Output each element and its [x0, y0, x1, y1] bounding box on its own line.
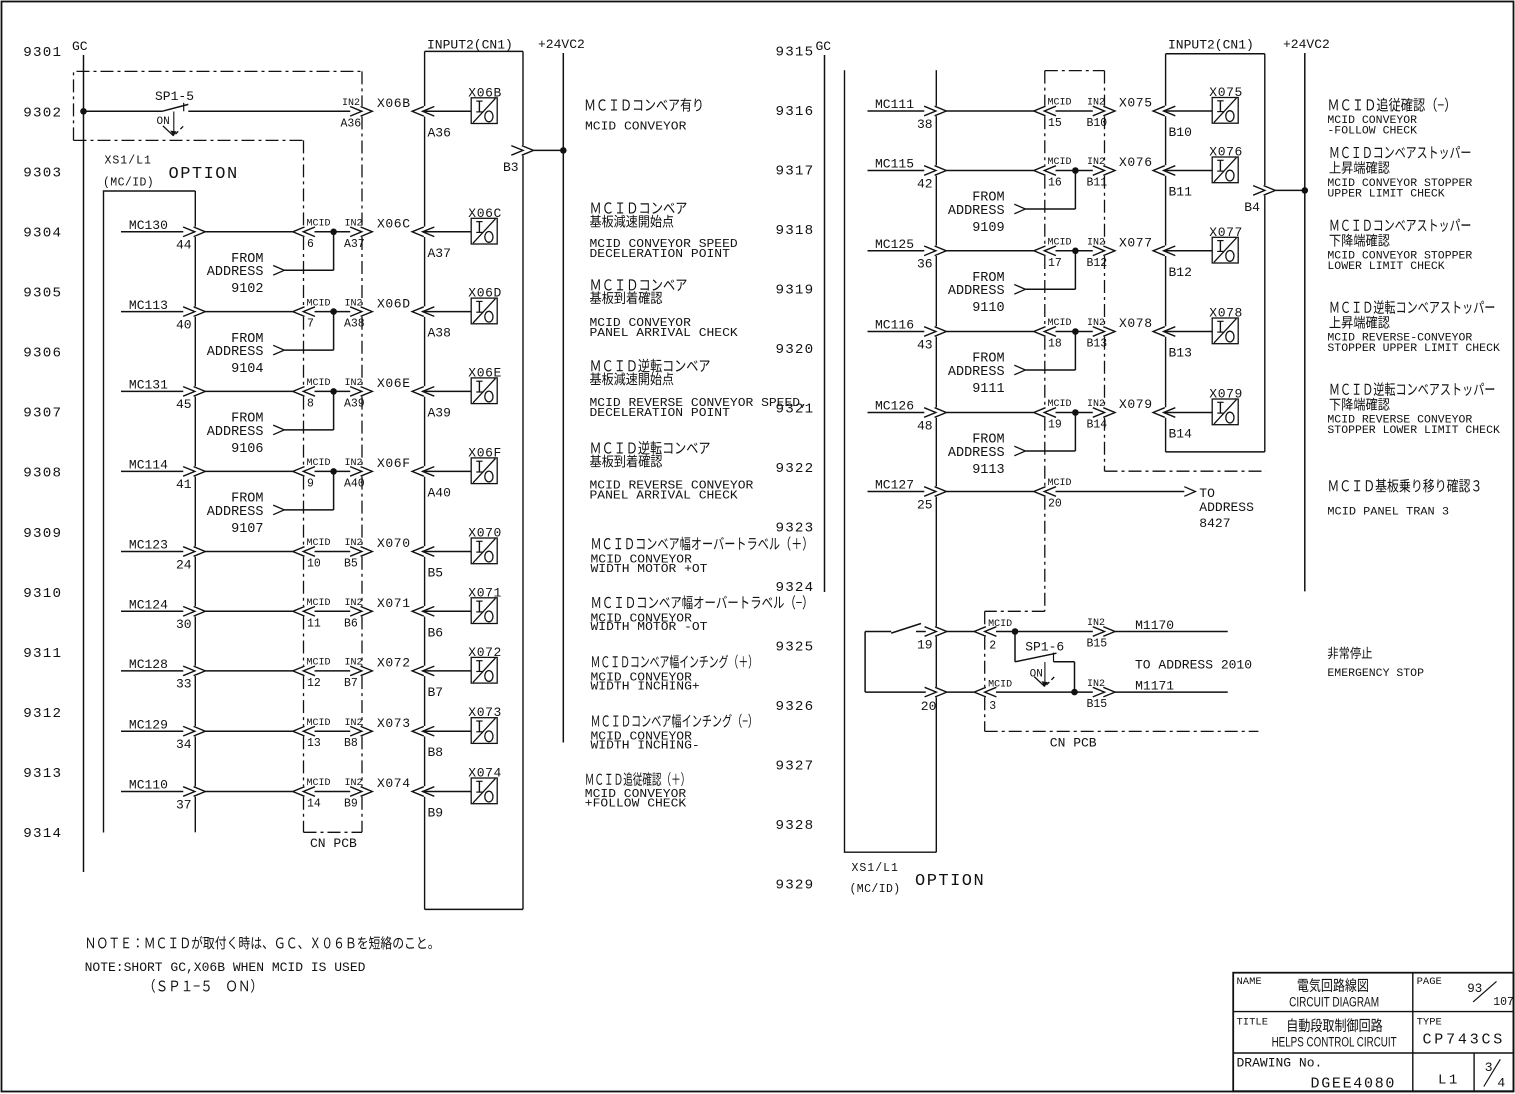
wire MCID to IN2 (MC125)	[1056, 250, 1093, 252]
svg-text:9313: 9313	[23, 766, 62, 782]
svg-text:DGEE4080: DGEE4080	[1311, 1076, 1397, 1093]
junction dot 9113	[1072, 409, 1079, 416]
connector pin IN2 B7 chevron	[350, 666, 372, 676]
svg-text:MCID: MCID	[307, 658, 331, 669]
svg-text:CIRCUIT DIAGRAM: CIRCUIT DIAGRAM	[1289, 995, 1379, 1010]
svg-text:DECELERATION POINT: DECELERATION POINT	[590, 247, 730, 261]
svg-text:MCID: MCID	[1048, 478, 1072, 489]
svg-text:X06C: X06C	[377, 217, 411, 232]
svg-text:9319: 9319	[776, 283, 815, 299]
svg-text:+24VC2: +24VC2	[538, 37, 585, 52]
svg-text:DRAWING No.: DRAWING No.	[1237, 1056, 1323, 1071]
svg-text:MC123: MC123	[129, 538, 168, 553]
svg-text:B7: B7	[428, 685, 444, 700]
junction dot 9102	[330, 229, 337, 236]
connector pin MCID 12 chevron	[293, 666, 315, 676]
svg-text:9326: 9326	[776, 699, 815, 715]
svg-text:MC110: MC110	[129, 778, 168, 793]
svg-text:CN PCB: CN PCB	[1050, 736, 1097, 751]
svg-text:44: 44	[176, 238, 192, 253]
connector pin IN2 B11 chevron	[1093, 166, 1115, 176]
svg-text:LOWER LIMIT CHECK: LOWER LIMIT CHECK	[1327, 261, 1445, 273]
svg-text:93: 93	[1467, 982, 1482, 996]
CN PCB boundary dash-dot vertical MCID side (left)	[303, 140, 305, 226]
connector pin IN2 B8 chevron	[350, 726, 372, 736]
junction dot 9106	[330, 388, 337, 395]
svg-text:40: 40	[176, 317, 192, 332]
svg-text:9104: 9104	[231, 362, 263, 377]
svg-text:9324: 9324	[776, 580, 815, 596]
svg-text:X077: X077	[1119, 236, 1153, 251]
svg-text:9102: 9102	[231, 282, 263, 297]
connector pin IN2 B12 chevron	[1093, 246, 1115, 256]
svg-text:A36: A36	[341, 118, 362, 131]
svg-text:IN2: IN2	[345, 378, 363, 389]
junction dot 9107	[330, 468, 337, 475]
svg-text:ADDRESS: ADDRESS	[948, 365, 1005, 380]
svg-text:MCID: MCID	[307, 718, 331, 729]
wire MC127 to MCID connector	[946, 491, 1034, 493]
svg-text:B11: B11	[1169, 185, 1193, 200]
svg-text:WIDTH MOTOR -OT: WIDTH MOTOR -OT	[591, 620, 708, 634]
svg-text:ADDRESS: ADDRESS	[207, 505, 264, 520]
svg-text:-FOLLOW CHECK: -FOLLOW CHECK	[1327, 126, 1417, 138]
svg-text:A38: A38	[428, 326, 451, 341]
connector pin chevron at INPUT2 edge (X075)	[1153, 106, 1175, 116]
svg-text:A40: A40	[428, 485, 451, 500]
CN PCB boundary dash-dot top bar (right)	[1045, 70, 1105, 72]
svg-text:+24VC2: +24VC2	[1283, 37, 1330, 52]
svg-text:B5: B5	[428, 566, 444, 581]
connector pin MCID 2 chevron	[974, 627, 996, 637]
svg-text:X071: X071	[377, 596, 411, 611]
svg-text:9323: 9323	[776, 521, 815, 537]
svg-text:7: 7	[307, 318, 314, 331]
svg-text:9317: 9317	[776, 164, 815, 180]
svg-text:9110: 9110	[972, 301, 1004, 316]
wire MCID 3 to IN2 B15	[996, 691, 1093, 693]
svg-text:MC129: MC129	[129, 717, 168, 732]
svg-text:9: 9	[307, 477, 314, 490]
svg-text:IN2: IN2	[1087, 157, 1105, 168]
svg-text:25: 25	[917, 497, 933, 512]
svg-text:IN2: IN2	[345, 219, 363, 230]
wire MCID to IN2 (MC126)	[1056, 412, 1093, 414]
svg-text:SP1-5: SP1-5	[155, 89, 194, 104]
svg-text:UPPER LIMIT CHECK: UPPER LIMIT CHECK	[1327, 189, 1445, 201]
svg-text:IN2: IN2	[1087, 399, 1105, 410]
svg-text:OPTION: OPTION	[169, 165, 239, 184]
CN PCB boundary bottom bar (right)	[985, 730, 1259, 732]
+24VC2 rail vertical wire (left)	[562, 53, 564, 743]
description X077 (stopper lower limit)	[1331, 220, 1339, 231]
svg-text:MCID: MCID	[1048, 318, 1072, 329]
wire X06C input to I/O	[423, 231, 472, 233]
svg-text:TITLE: TITLE	[1237, 1017, 1269, 1029]
svg-text:9316: 9316	[776, 104, 815, 120]
description MCID panel tran 3	[1329, 480, 1337, 491]
svg-text:9107: 9107	[231, 522, 263, 537]
wire X073 input to I/O	[423, 730, 472, 732]
connector pin 36 chevron at XS1/L1 edge	[924, 246, 946, 256]
connector pin 19 chevron at XS1/L1 edge (M1170)	[925, 627, 947, 637]
svg-text:X073: X073	[377, 716, 411, 731]
svg-text:MC127: MC127	[875, 478, 914, 493]
junction dot B4 +24VC2	[1302, 187, 1309, 194]
svg-text:M1170: M1170	[1135, 618, 1174, 633]
connector pin 30 chevron at XS1/L1 edge	[183, 607, 205, 617]
connector pin chevron at INPUT2 edge (X077)	[1153, 246, 1175, 256]
svg-text:SP1-6: SP1-6	[1025, 640, 1064, 655]
description X06F (reverse panel arrival)	[591, 442, 599, 453]
svg-text:MCID: MCID	[307, 219, 331, 230]
svg-text:A39: A39	[428, 405, 451, 420]
connector pin MCID 18 chevron	[1034, 327, 1056, 337]
note text (Japanese)	[87, 938, 94, 949]
svg-text:14: 14	[307, 798, 321, 811]
svg-text:A39: A39	[344, 397, 365, 410]
connector pin 40 chevron at XS1/L1 edge	[183, 307, 205, 317]
connector pin IN2 B5 chevron	[350, 547, 372, 557]
svg-text:9308: 9308	[23, 466, 62, 482]
description X072 (width inching +)	[592, 656, 599, 667]
connector pin MCID 3 chevron	[974, 687, 996, 697]
svg-text:9106: 9106	[231, 442, 263, 457]
wire X070 input to I/O	[423, 551, 472, 553]
connector pin IN2 B9 chevron	[350, 787, 372, 797]
svg-text:OPTION: OPTION	[915, 872, 985, 891]
description X079 (reverse stopper lower limit)	[1331, 384, 1339, 395]
svg-text:PAGE: PAGE	[1417, 976, 1442, 988]
wire MCID to IN2 (MC116)	[1056, 331, 1093, 333]
svg-text:MCID: MCID	[1048, 399, 1072, 410]
svg-text:8427: 8427	[1199, 516, 1230, 531]
svg-text:TO: TO	[1199, 486, 1215, 501]
connector pin B4 chevron	[1253, 186, 1275, 196]
+24VC2 rail vertical wire (right)	[1304, 53, 1306, 591]
wire MC123 to MCID connector	[205, 551, 292, 553]
wire MC131 to MCID connector	[205, 390, 292, 392]
connector pin 42 chevron at XS1/L1 edge	[924, 166, 946, 176]
svg-text:MCID: MCID	[1048, 157, 1072, 168]
svg-text:TO ADDRESS 2010: TO ADDRESS 2010	[1135, 658, 1252, 673]
wire MC128 to MCID connector	[205, 670, 292, 672]
svg-text:11: 11	[307, 617, 321, 630]
svg-text:B8: B8	[344, 737, 358, 750]
svg-text:A37: A37	[344, 238, 365, 251]
wire MCID to IN2 (MC128)	[315, 670, 351, 672]
svg-text:MC128: MC128	[129, 657, 168, 672]
svg-text:19: 19	[917, 637, 933, 652]
connector pin 43 chevron at XS1/L1 edge	[924, 327, 946, 337]
svg-text:HELPS CONTROL CIRCUIT: HELPS CONTROL CIRCUIT	[1272, 1035, 1397, 1050]
svg-text:MC113: MC113	[129, 298, 168, 313]
wire X06F input to I/O	[423, 470, 472, 472]
wire row 9302 to IN2 connector	[188, 110, 350, 112]
wire X077 input to I/O	[1164, 250, 1213, 252]
connector pin B3 chevron	[511, 146, 533, 156]
svg-text:IN2: IN2	[345, 538, 363, 549]
wire MC110 to MCID connector	[205, 791, 292, 793]
svg-text:CP743CS: CP743CS	[1423, 1032, 1506, 1049]
CN PCB boundary bottom bar (left)	[304, 831, 363, 833]
svg-text:20: 20	[1048, 498, 1062, 511]
connector pin 41 chevron at XS1/L1 edge	[183, 467, 205, 477]
connector pin 44 chevron at XS1/L1 edge	[183, 227, 205, 237]
svg-text:18: 18	[1048, 338, 1062, 351]
svg-text:GC: GC	[72, 39, 88, 54]
description X06E (reverse deceleration point)	[591, 360, 599, 371]
svg-text:MCID: MCID	[307, 778, 331, 789]
wire X072 input to I/O	[423, 670, 472, 672]
svg-text:B12: B12	[1087, 257, 1108, 270]
svg-text:9109: 9109	[972, 221, 1004, 236]
svg-text:PANEL ARRIVAL CHECK: PANEL ARRIVAL CHECK	[590, 326, 739, 340]
svg-text:WIDTH MOTOR +OT: WIDTH MOTOR +OT	[591, 562, 708, 576]
svg-text:9322: 9322	[776, 461, 815, 477]
svg-text:ADDRESS: ADDRESS	[207, 345, 264, 360]
connector pin chevron at INPUT2 edge (X078)	[1153, 327, 1175, 337]
svg-text:B7: B7	[344, 677, 358, 690]
description X073 (width inching -)	[592, 715, 599, 726]
svg-text:WIDTH INCHING+: WIDTH INCHING+	[591, 679, 700, 693]
svg-text:9306: 9306	[23, 346, 62, 362]
svg-text:9327: 9327	[776, 759, 815, 775]
svg-text:X072: X072	[377, 656, 411, 671]
svg-text:X070: X070	[377, 536, 411, 551]
svg-text:IN2: IN2	[345, 298, 363, 309]
svg-text:IN2: IN2	[345, 598, 363, 609]
wire X078 input to I/O	[1164, 331, 1213, 333]
svg-text:9305: 9305	[23, 286, 62, 302]
description X06C (deceleration point)	[591, 202, 599, 213]
wire MC115 to MCID connector	[946, 170, 1034, 172]
connector pin 24 chevron at XS1/L1 edge	[183, 547, 205, 557]
wire B4 to +24VC2 rail	[1275, 189, 1305, 191]
svg-text:IN2: IN2	[1087, 238, 1105, 249]
description X078 (reverse stopper upper limit)	[1331, 302, 1339, 313]
connector pin chevron at INPUT2 edge (X06C)	[412, 227, 434, 237]
wire X06B input to I/O	[423, 110, 472, 112]
wire MC113 to MCID connector	[205, 311, 292, 313]
svg-text:M1171: M1171	[1135, 679, 1174, 694]
wire MC129 to MCID connector	[205, 730, 292, 732]
svg-text:42: 42	[917, 176, 933, 191]
wire X06D input to I/O	[423, 311, 472, 313]
svg-text:MCID: MCID	[1048, 98, 1072, 109]
svg-text:XS1/L1: XS1/L1	[105, 155, 152, 168]
connector pin chevron at INPUT2 edge (X072)	[412, 666, 434, 676]
svg-text:MCID: MCID	[307, 378, 331, 389]
connector pin IN2 A39 chevron	[350, 387, 372, 397]
svg-text:TYPE: TYPE	[1417, 1017, 1442, 1029]
svg-text:B3: B3	[503, 160, 519, 175]
svg-text:MC126: MC126	[875, 399, 914, 414]
connector pin 34 chevron at XS1/L1 edge	[183, 726, 205, 736]
svg-text:IN2: IN2	[1087, 618, 1105, 629]
GC rail vertical wire (right)	[824, 55, 826, 592]
svg-text:MCID: MCID	[307, 298, 331, 309]
junction dot 9110	[1072, 248, 1079, 255]
svg-text:A36: A36	[428, 125, 451, 140]
svg-text:MC116: MC116	[875, 318, 914, 333]
connector pin MCID 10 chevron	[293, 547, 315, 557]
svg-text:IN2: IN2	[342, 98, 360, 109]
connector pin MCID 7 chevron	[293, 307, 315, 317]
description X06D (panel arrival check)	[591, 279, 599, 290]
svg-text:B4: B4	[1244, 200, 1260, 215]
connector pin chevron at INPUT2 edge (X074)	[412, 787, 434, 797]
connector pin chevron at INPUT2 edge (X06F)	[412, 467, 434, 477]
svg-text:B14: B14	[1087, 419, 1108, 432]
svg-text:41: 41	[176, 477, 192, 492]
svg-text:B6: B6	[344, 617, 358, 630]
connector pin 33 chevron at XS1/L1 edge	[183, 666, 205, 676]
connector pin chevron at INPUT2 edge (X073)	[412, 726, 434, 736]
svg-text:10: 10	[307, 558, 321, 571]
wire M1170 output	[1115, 631, 1228, 633]
connector pin IN2 A38 chevron	[350, 307, 372, 317]
wire X076 input to I/O	[1164, 170, 1213, 172]
svg-text:48: 48	[917, 418, 933, 433]
wire MC124 to MCID connector	[205, 610, 292, 612]
wire M1170 to MCID connector	[947, 631, 974, 633]
junction dot 9109	[1072, 167, 1079, 174]
svg-text:MCID: MCID	[988, 619, 1012, 630]
svg-text:9325: 9325	[776, 640, 815, 656]
svg-text:IN2: IN2	[1087, 98, 1105, 109]
svg-text:38: 38	[917, 117, 933, 132]
svg-text:PANEL ARRIVAL CHECK: PANEL ARRIVAL CHECK	[590, 489, 739, 503]
connector INPUT2(CN1) boundary box (right)	[1166, 53, 1265, 55]
description X071 (width motor -OT)	[592, 597, 600, 608]
svg-text:37: 37	[176, 797, 192, 812]
svg-text:A40: A40	[344, 477, 365, 490]
connector pin 37 chevron at XS1/L1 edge	[183, 787, 205, 797]
svg-text:IN2: IN2	[345, 658, 363, 669]
svg-text:EMERGENCY STOP: EMERGENCY STOP	[1327, 668, 1424, 680]
wire row 9302 left segment	[84, 110, 163, 112]
svg-text:6: 6	[307, 238, 314, 251]
CN PCB boundary dash-dot vertical IN2 side (left)	[361, 71, 363, 106]
svg-text:MCID: MCID	[307, 458, 331, 469]
svg-text:ADDRESS: ADDRESS	[948, 204, 1005, 219]
svg-text:B9: B9	[428, 806, 444, 821]
wire MCID 20 to address arrow	[1056, 491, 1185, 493]
svg-text:107: 107	[1493, 996, 1514, 1009]
svg-text:9320: 9320	[776, 342, 815, 358]
svg-text:A38: A38	[344, 318, 365, 331]
svg-text:B10: B10	[1169, 125, 1192, 140]
svg-text:2: 2	[989, 639, 996, 652]
svg-text:+FOLLOW CHECK: +FOLLOW CHECK	[585, 796, 687, 810]
connector XS1/L1 OPTION boundary box (left)	[104, 191, 196, 833]
svg-text:B5: B5	[344, 558, 358, 571]
connector pin chevron at INPUT2 edge (X070)	[412, 547, 434, 557]
svg-text:ADDRESS: ADDRESS	[1199, 500, 1254, 515]
connector pin MCID 20 chevron	[1034, 487, 1056, 497]
connector pin chevron at INPUT2 edge (X076)	[1153, 166, 1175, 176]
wire MCID to IN2 (MC110)	[315, 791, 351, 793]
CN PCB boundary dash-dot (left top box)	[74, 71, 363, 140]
svg-text:30: 30	[176, 617, 192, 632]
junction dot SP1-6 top	[1012, 628, 1019, 635]
junction dot SP1-6 bottom	[1071, 689, 1078, 696]
svg-text:X078: X078	[1119, 316, 1153, 331]
svg-text:STOPPER UPPER LIMIT CHECK: STOPPER UPPER LIMIT CHECK	[1327, 343, 1500, 355]
connector pin chevron at INPUT2 edge (X071)	[412, 607, 434, 617]
svg-text:45: 45	[176, 397, 192, 412]
svg-text:ADDRESS: ADDRESS	[207, 425, 264, 440]
connector pin 38 chevron at XS1/L1 edge	[924, 106, 946, 116]
svg-text:MCID PANEL TRAN 3: MCID PANEL TRAN 3	[1327, 506, 1449, 518]
GC rail vertical wire (left)	[83, 55, 85, 872]
svg-text:9309: 9309	[23, 526, 62, 542]
svg-text:8: 8	[307, 397, 314, 410]
description X075 (-follow check)	[1329, 99, 1337, 110]
svg-text:MC114: MC114	[129, 458, 168, 473]
wire X075 input to I/O	[1164, 110, 1213, 112]
wire MCID to IN2 (MC114)	[315, 470, 351, 472]
connector pin MCID 17 chevron	[1034, 246, 1056, 256]
connector pin MCID 11 chevron	[293, 607, 315, 617]
junction dot 9104	[330, 308, 337, 315]
svg-text:IN2: IN2	[1087, 679, 1105, 690]
connector pin chevron at INPUT2 edge (X06E)	[412, 387, 434, 397]
svg-text:9113: 9113	[972, 463, 1004, 478]
wire MC130 to MCID connector	[205, 231, 292, 233]
svg-text:MC111: MC111	[875, 97, 914, 112]
switch contact (M1170 row)	[891, 624, 921, 634]
connector pin MCID 15 chevron	[1034, 106, 1056, 116]
svg-text:MCID CONVEYOR: MCID CONVEYOR	[585, 120, 686, 134]
svg-text:9302: 9302	[23, 105, 62, 121]
svg-text:9310: 9310	[23, 586, 62, 602]
svg-text:9314: 9314	[23, 826, 62, 842]
svg-text:4: 4	[1497, 1076, 1505, 1091]
svg-text:15: 15	[1048, 117, 1062, 130]
svg-text:L1: L1	[1438, 1073, 1460, 1089]
wire MC125 to MCID connector	[946, 250, 1034, 252]
wire left loop M1170-M1171	[864, 632, 866, 693]
wire MC126 to MCID connector	[946, 412, 1034, 414]
wire B3 to +24VC2 rail	[534, 149, 564, 151]
arrow to address 8427	[1184, 487, 1195, 497]
connector pin 45 chevron at XS1/L1 edge	[183, 387, 205, 397]
svg-text:36: 36	[917, 257, 933, 272]
svg-text:ADDRESS: ADDRESS	[948, 284, 1005, 299]
connector pin MCID 13 chevron	[293, 726, 315, 736]
svg-text:MC124: MC124	[129, 598, 168, 613]
svg-text:X075: X075	[1119, 96, 1153, 111]
svg-text:GC: GC	[816, 39, 832, 54]
svg-text:9303: 9303	[23, 165, 62, 181]
svg-text:ADDRESS: ADDRESS	[207, 265, 264, 280]
CN PCB boundary dash-dot MCID side (right)	[1044, 71, 1046, 106]
wire MC114 to MCID connector	[205, 470, 292, 472]
svg-text:9311: 9311	[23, 646, 62, 662]
svg-text:9318: 9318	[776, 223, 815, 239]
wire MCID to IN2 (MC129)	[315, 730, 351, 732]
svg-text:43: 43	[917, 337, 933, 352]
wire MC116 to MCID connector	[946, 331, 1034, 333]
connector pin 20 chevron at XS1/L1 edge (M1171)	[925, 687, 947, 697]
svg-text:9315: 9315	[776, 45, 815, 61]
wire M1171 left segment	[865, 691, 926, 693]
description X070 (width motor +OT)	[592, 538, 600, 549]
description X06B (MCID conveyor)	[586, 99, 594, 110]
connector pin MCID 14 chevron	[293, 787, 315, 797]
